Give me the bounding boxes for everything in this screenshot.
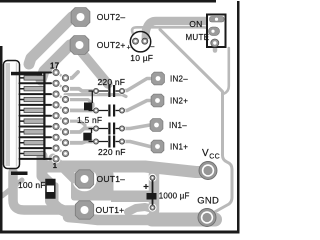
- svg-text:1: 1: [53, 161, 57, 170]
- svg-text:MUTE: MUTE: [186, 33, 210, 42]
- svg-text:OUT1–: OUT1–: [97, 174, 126, 184]
- svg-text:OUT1+: OUT1+: [96, 205, 125, 215]
- svg-text:IN2–: IN2–: [170, 75, 188, 84]
- svg-text:1000 µF: 1000 µF: [159, 191, 190, 200]
- svg-text:+: +: [127, 44, 131, 51]
- svg-text:GND: GND: [197, 196, 219, 207]
- svg-text:100 nF: 100 nF: [18, 180, 46, 190]
- svg-text:IN1+: IN1+: [170, 143, 188, 152]
- svg-text:IN2+: IN2+: [170, 97, 188, 106]
- svg-text:10 µF: 10 µF: [130, 53, 153, 63]
- svg-text:V: V: [202, 148, 209, 159]
- svg-text:17: 17: [50, 62, 60, 71]
- svg-text:1.5 nF: 1.5 nF: [77, 115, 102, 125]
- svg-text:220 nF: 220 nF: [98, 77, 126, 87]
- svg-text:OUT2–: OUT2–: [97, 12, 126, 22]
- svg-text:CC: CC: [209, 154, 220, 161]
- svg-text:–: –: [151, 43, 155, 50]
- svg-text:OUT2+: OUT2+: [97, 40, 126, 50]
- svg-text:IN1–: IN1–: [169, 121, 187, 130]
- svg-text:ON: ON: [189, 19, 202, 29]
- svg-text:220 nF: 220 nF: [98, 147, 126, 157]
